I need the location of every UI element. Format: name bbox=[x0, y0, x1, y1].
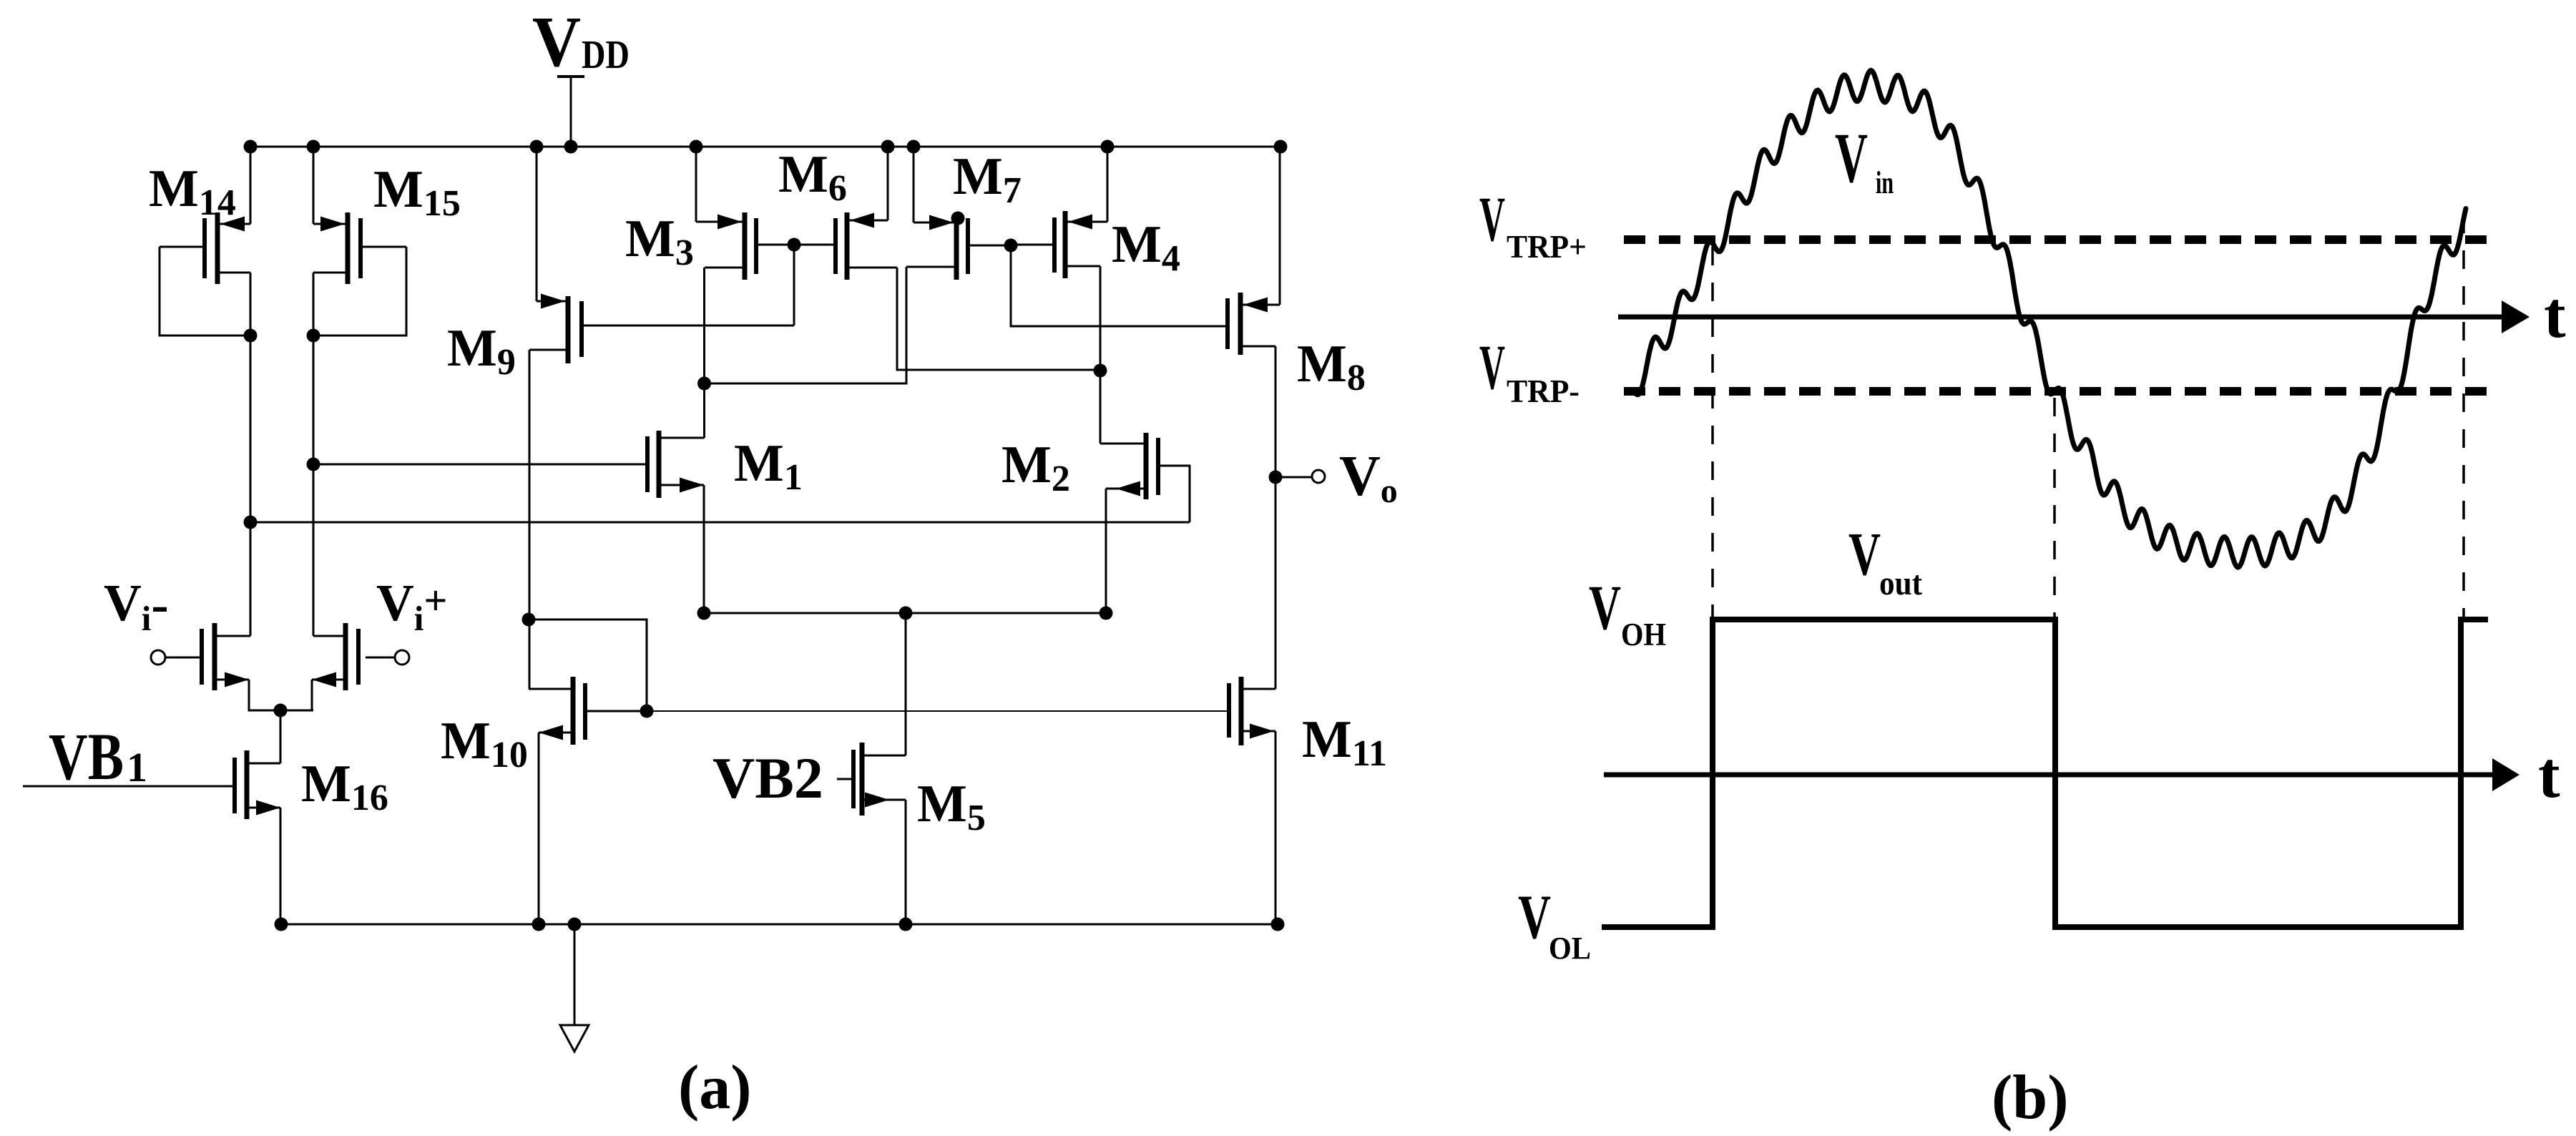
node dot VDD rail / M9 source bbox=[530, 140, 544, 154]
wire node B vertical bbox=[1100, 266, 1102, 444]
wire M7 drain to node A bbox=[705, 267, 907, 383]
transistor M3 (PMOS) bbox=[743, 212, 748, 280]
guide dashed vertical 2 bbox=[2053, 398, 2056, 617]
transistor M5 (NMOS tail current) bbox=[860, 743, 865, 816]
svg-text:V: V bbox=[1589, 573, 1621, 643]
node dot ground rail / M16 source bbox=[275, 918, 288, 931]
node dot VDD rail / M7 source bbox=[907, 140, 921, 154]
wire VB2 gate tick bbox=[837, 778, 853, 780]
wire M4/M7 gates to M8 gate bbox=[1011, 245, 1228, 326]
waveform Vin (sine with ripple) bbox=[1633, 70, 2466, 567]
svg-text:OL: OL bbox=[1549, 931, 1591, 966]
transistor M2 (NMOS) bbox=[1144, 433, 1149, 499]
axis t (upper waveform) bbox=[1618, 315, 2504, 320]
wire M9 gate to M3/M6 gates bbox=[582, 325, 794, 327]
wire M15 drain to M1 gate bbox=[307, 458, 320, 471]
node dot VDD rail / M4 source bbox=[1101, 140, 1115, 154]
svg-text:DD: DD bbox=[582, 33, 630, 77]
transistor M7 (PMOS) bbox=[954, 212, 959, 280]
node dot VDD rail / M6 source bbox=[881, 140, 895, 154]
node dot VDD rail / M15 source bbox=[307, 140, 320, 154]
svg-text:(b): (b) bbox=[1992, 1063, 2069, 1132]
transistor M16 (NMOS tail source) bbox=[245, 750, 250, 819]
level line VTRP+ (dashed) bbox=[1624, 235, 2487, 244]
transistor M4 (PMOS) bbox=[1063, 211, 1068, 278]
waveform Vout (square wave) bbox=[1602, 620, 2488, 927]
svg-text:in: in bbox=[1876, 165, 1894, 200]
svg-text:V: V bbox=[1848, 519, 1881, 588]
ground symbol bbox=[574, 924, 576, 1025]
node dot ground rail / M5 source bbox=[899, 918, 913, 931]
ground rail (bottom) bbox=[281, 924, 1280, 926]
svg-text:Vi-: Vi- bbox=[104, 574, 169, 638]
level line VTRP- (dashed) bbox=[1624, 387, 2487, 396]
node dot M14 gate-drain bbox=[244, 329, 258, 343]
svg-text:t: t bbox=[2544, 278, 2566, 351]
transistor M14 (diode-connected PMOS) bbox=[215, 212, 220, 284]
transistor input pair left (Vi-) bbox=[212, 623, 217, 690]
wire M2 gate riser bbox=[1158, 466, 1190, 522]
svg-text:V: V bbox=[532, 1, 581, 82]
node dot VDD rail / M3 source bbox=[690, 140, 703, 154]
transistor M10 (NMOS diode mirror) bbox=[571, 677, 576, 745]
axis t (lower waveform) bbox=[1604, 773, 2494, 778]
svg-text:VB: VB bbox=[49, 720, 124, 794]
guide dashed vertical 1 bbox=[1711, 247, 1714, 617]
svg-text:V: V bbox=[1518, 883, 1551, 952]
node dot ground rail / ground stub bbox=[568, 918, 582, 931]
svg-text:TRP-: TRP- bbox=[1507, 373, 1580, 409]
node dot VDD rail / VDD stub bbox=[564, 140, 578, 154]
transistor M15 (diode-connected PMOS) bbox=[346, 212, 351, 284]
svg-text:t: t bbox=[2538, 738, 2560, 811]
svg-text:V: V bbox=[1479, 333, 1505, 403]
node dot M15 gate-drain bbox=[307, 329, 320, 343]
node dot M3/M6 gate junction bbox=[788, 238, 801, 252]
node dot ground rail / M10 source bbox=[532, 918, 546, 931]
wire node A vertical bbox=[703, 268, 705, 438]
transistor input pair right (Vi+) bbox=[343, 623, 348, 690]
VDD supply stub bbox=[570, 77, 572, 147]
wire M14 drain to M2 gate bbox=[244, 516, 258, 529]
wire M10 drain-gate loop bbox=[529, 620, 647, 711]
guide dashed vertical 3 bbox=[2462, 215, 2465, 617]
transistor M8 (PMOS output) bbox=[1238, 293, 1243, 355]
node dot VDD rail / M8 source bbox=[1274, 140, 1288, 154]
svg-text:(a): (a) bbox=[678, 1053, 752, 1122]
transistor M1 (NMOS) bbox=[657, 431, 662, 498]
svg-text:1: 1 bbox=[127, 744, 147, 790]
wire VB1 bbox=[23, 785, 235, 788]
transistor M6 (PMOS) bbox=[845, 212, 850, 280]
wire M10 gate to M11 gate bbox=[647, 710, 1229, 712]
node dot VDD rail / M14 source bbox=[244, 140, 258, 154]
input terminal Vi- bbox=[151, 650, 165, 665]
svg-text:out: out bbox=[1879, 564, 1922, 602]
node dot M9 drain / M10 bbox=[522, 613, 536, 627]
input terminal Vi+ bbox=[395, 650, 409, 665]
wire M1/M2 source rail bbox=[704, 612, 1106, 614]
svg-text:V: V bbox=[1479, 185, 1505, 255]
svg-text:OH: OH bbox=[1621, 617, 1666, 652]
transistor M11 (NMOS output) bbox=[1239, 677, 1244, 745]
wire VDD top rail bbox=[250, 146, 1280, 148]
node tail junction bbox=[274, 704, 288, 718]
svg-text:VB2: VB2 bbox=[712, 745, 823, 811]
node dot M7/M4 gate junction bbox=[1004, 239, 1018, 253]
node dot ground rail / M11 source bbox=[1271, 918, 1285, 931]
svg-text:TRP+: TRP+ bbox=[1507, 229, 1587, 265]
svg-text:V: V bbox=[1835, 118, 1868, 197]
transistor M9 (PMOS) bbox=[566, 296, 571, 363]
wire M6 drain to node B bbox=[897, 268, 1101, 370]
node Vo bbox=[1269, 471, 1283, 484]
